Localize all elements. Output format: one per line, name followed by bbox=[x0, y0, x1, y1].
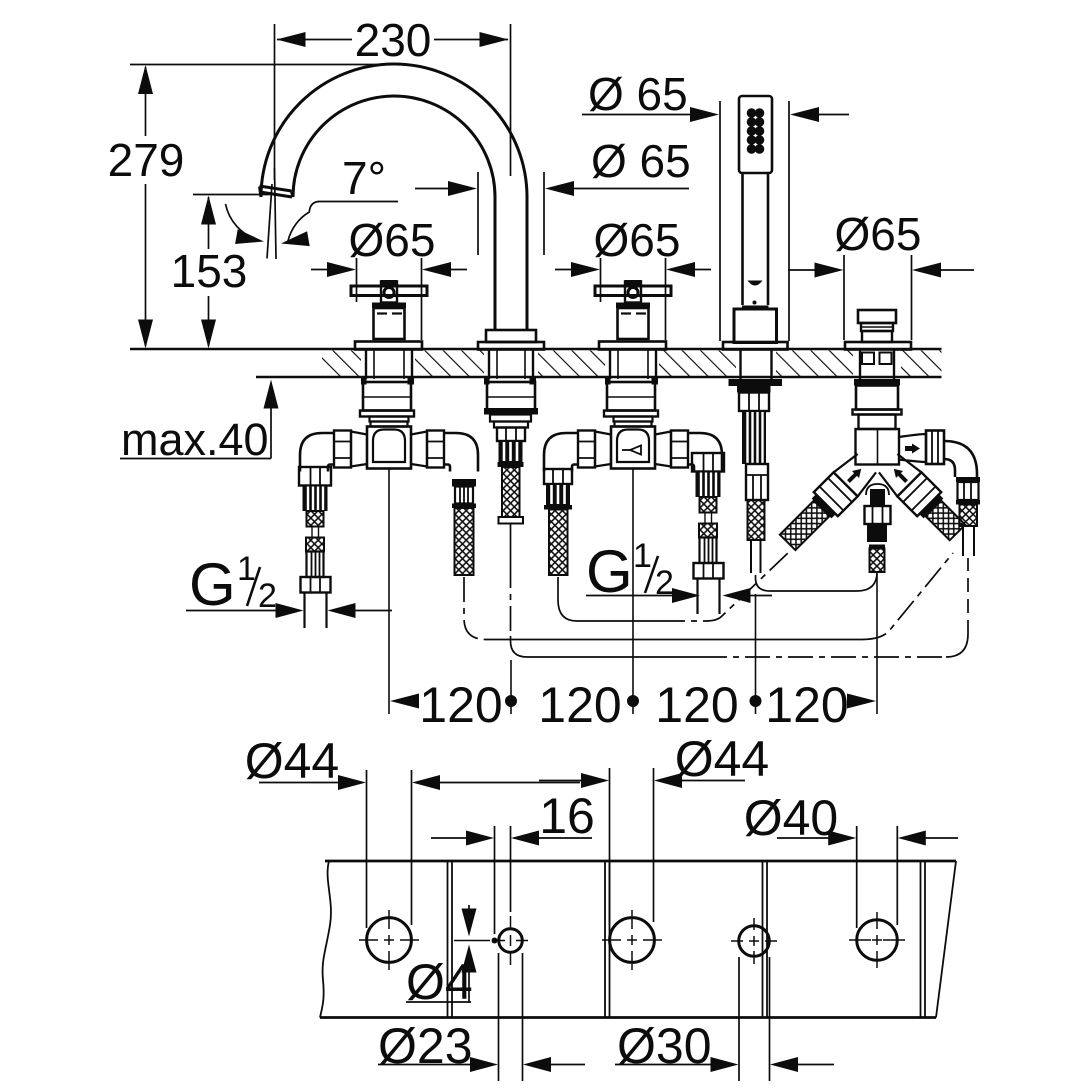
svg-text:7°: 7° bbox=[342, 152, 386, 204]
svg-text:Ø65: Ø65 bbox=[835, 208, 922, 260]
hole H5 D40 bbox=[857, 920, 898, 961]
body bbox=[363, 382, 411, 411]
svg-text:Ø 65: Ø 65 bbox=[591, 135, 691, 187]
7 degree wedge spout axis line bbox=[267, 184, 272, 259]
svg-text:153: 153 bbox=[171, 245, 248, 297]
dimension D65 spout arrow right bbox=[545, 181, 689, 196]
handle neck band bbox=[372, 303, 406, 309]
hole H1 D44 bbox=[367, 918, 412, 963]
arrow right bbox=[847, 694, 876, 709]
svg-text:120: 120 bbox=[655, 677, 738, 733]
dots bbox=[505, 695, 517, 707]
svg-text:Ø65: Ø65 bbox=[594, 214, 681, 266]
valve V2 cross handle bbox=[595, 280, 671, 350]
shower mounting nut bbox=[739, 393, 769, 412]
extension line V1 center bbox=[388, 469, 390, 714]
diverter left arm bbox=[776, 451, 879, 554]
top reference line (spout top) bbox=[130, 64, 394, 66]
dimension 153 bbox=[201, 196, 216, 349]
shower wand bbox=[741, 173, 744, 305]
handle bar bbox=[351, 286, 427, 296]
deck underside line bbox=[256, 376, 942, 379]
svg-text:Ø44: Ø44 bbox=[245, 733, 340, 789]
hose loop spout to diverter elbow bbox=[511, 558, 969, 657]
deck plan outline top edge bbox=[325, 860, 956, 863]
svg-text:G: G bbox=[189, 551, 236, 618]
svg-text:max.40: max.40 bbox=[121, 414, 269, 465]
spout hose centerline bbox=[510, 524, 512, 564]
handle hub bbox=[381, 282, 397, 303]
diverter right elbow port bbox=[899, 434, 926, 462]
hose loop V2 to diverter left arm bbox=[558, 552, 789, 621]
escutcheon V2 bbox=[599, 342, 666, 350]
diverter body bbox=[856, 386, 898, 410]
svg-text:Ø 65: Ø 65 bbox=[588, 68, 688, 120]
valve V1 cross handle bbox=[351, 280, 427, 350]
spout under-deck shank bbox=[484, 351, 538, 564]
diverter Y trunk bbox=[856, 429, 900, 465]
leader arrow to spout pillar bbox=[415, 181, 477, 196]
hole H2 D23 bbox=[499, 929, 523, 953]
spout connector nut bbox=[497, 428, 525, 442]
flange bbox=[360, 411, 414, 417]
dimension 230 extension line left bbox=[274, 24, 276, 180]
deck cross-section hatched band bbox=[322, 351, 942, 377]
tee right nut bbox=[427, 431, 444, 468]
extension line shower center bbox=[755, 594, 757, 714]
dimension D65 diverter bbox=[788, 255, 974, 340]
diverter elbow outlet nut bbox=[956, 477, 980, 482]
7 degree dimension arc right bbox=[281, 202, 319, 247]
seam line 4 bbox=[920, 861, 922, 1018]
seam line 3 bbox=[762, 861, 764, 1018]
spout body (gooseneck tube) bbox=[260, 64, 528, 330]
diverter bbox=[776, 310, 980, 572]
spout escutcheon bbox=[478, 342, 544, 350]
tee left nut bbox=[334, 431, 351, 468]
arrow left bbox=[390, 694, 419, 709]
deck plan outline bottom edge bbox=[320, 1016, 936, 1019]
dimension 153 reference line bbox=[193, 194, 270, 196]
left elbow bbox=[300, 433, 334, 472]
diverter knob bbox=[858, 310, 896, 323]
svg-text:Ø65: Ø65 bbox=[349, 214, 436, 266]
escutcheon V1 bbox=[355, 342, 422, 350]
extension line V2 center bbox=[632, 469, 634, 714]
spray face bbox=[747, 108, 765, 154]
shower hose fitting bbox=[746, 464, 768, 500]
diverter right arm bbox=[876, 451, 969, 544]
flow mark in V2 tee bbox=[630, 446, 641, 455]
shower head bbox=[739, 96, 772, 173]
tee left port cone bbox=[351, 432, 367, 467]
diverter right elbow nut bbox=[926, 431, 944, 465]
svg-text:120: 120 bbox=[419, 677, 502, 733]
dimension 230 extension line right bbox=[510, 24, 512, 176]
leader/arrow D65 hand shower left bbox=[582, 107, 719, 122]
hose loop V1 to diverter right arm bbox=[464, 553, 953, 640]
label G 1/2 left bbox=[186, 550, 392, 618]
handle body bbox=[374, 308, 405, 339]
svg-text:279: 279 bbox=[108, 134, 185, 186]
svg-text:1: 1 bbox=[633, 537, 652, 575]
max.40 leader and arrow bbox=[120, 380, 279, 459]
svg-text:Ø30: Ø30 bbox=[617, 1018, 712, 1074]
extension lines hand shower D65 bbox=[719, 101, 721, 341]
diverter elbow outlet braid bbox=[960, 505, 978, 527]
hole H4 D30 bbox=[739, 926, 770, 957]
dimension 230 bbox=[277, 32, 509, 47]
dimension 279 bbox=[138, 65, 153, 349]
spout base ring bbox=[486, 330, 536, 342]
wand holder bbox=[742, 306, 769, 311]
braided outlet chain below V1 right bbox=[452, 479, 476, 575]
deck surface line bbox=[130, 348, 942, 351]
braided outlet chain below V2 left bbox=[544, 469, 572, 575]
diverter center outlet chain bbox=[870, 489, 885, 506]
dimension chain 120 x4 bbox=[389, 469, 877, 733]
dimension D65 spout: extension lines bbox=[477, 172, 479, 255]
deck plan right break edge bbox=[936, 861, 956, 1018]
neck bbox=[370, 417, 409, 422]
7 degree wedge vertical reference line bbox=[275, 168, 277, 259]
svg-text:Ø44: Ø44 bbox=[675, 731, 770, 787]
dimension D65 valve 1 bbox=[311, 258, 467, 340]
tee right port cone bbox=[411, 432, 427, 467]
extension line diverter center bbox=[876, 574, 878, 714]
diverter Y crotch dome bbox=[866, 484, 889, 495]
arrow D65 hand shower right bbox=[790, 107, 849, 122]
shower base plate bbox=[723, 342, 788, 350]
7 degree label underline bbox=[318, 201, 398, 203]
seam line 1 bbox=[447, 861, 449, 1018]
svg-text:230: 230 bbox=[355, 14, 432, 66]
svg-text:1: 1 bbox=[237, 550, 256, 588]
seam line 2 bbox=[604, 861, 606, 1018]
supply hose chain below V1 left (G 1/2) bbox=[299, 467, 331, 628]
diverter through-deck bbox=[859, 351, 861, 380]
label G 1/2 right bbox=[586, 537, 772, 605]
svg-text:120: 120 bbox=[538, 677, 621, 733]
dimension D65 valve 2 bbox=[555, 258, 711, 340]
supply hose chain below V2 right (G 1/2) bbox=[692, 453, 724, 614]
extension line spout center bbox=[510, 660, 512, 714]
svg-text:2: 2 bbox=[258, 577, 277, 615]
svg-text:16: 16 bbox=[539, 788, 595, 844]
escutcheon diverter bbox=[845, 342, 911, 350]
shower hose bbox=[750, 540, 752, 573]
shower braid bbox=[748, 500, 765, 540]
through-deck shank bbox=[365, 351, 367, 380]
valve V2 under-deck body bbox=[544, 351, 722, 472]
tee body bbox=[367, 427, 411, 469]
spout ribbed fitting bbox=[499, 441, 523, 462]
right elbow bbox=[444, 433, 478, 472]
7 degree dimension arc left bbox=[226, 204, 265, 244]
shower threaded rod bbox=[742, 411, 766, 464]
valve V1 under-deck body bbox=[300, 351, 478, 472]
hole H3 D44 bbox=[610, 918, 655, 963]
hand shower bbox=[723, 96, 788, 573]
svg-text:Ø23: Ø23 bbox=[378, 1018, 473, 1074]
hose loop hand shower to diverter outlet bbox=[756, 572, 878, 591]
svg-text:120: 120 bbox=[765, 677, 848, 733]
diverter right elbow bbox=[944, 441, 977, 477]
shower through-deck shank bbox=[739, 351, 741, 380]
spout flexible braid bbox=[502, 467, 520, 517]
deck plan left break edge bbox=[320, 861, 331, 1018]
